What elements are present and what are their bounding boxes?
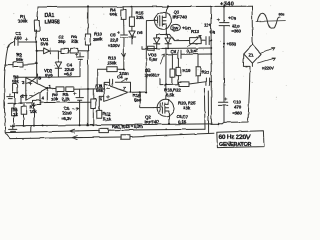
capacitor C8 <box>201 37 211 45</box>
svg-text:R21: R21 <box>202 69 210 74</box>
title box <box>217 131 264 148</box>
resistor R7 <box>21 103 26 126</box>
svg-text:60s: 60s <box>279 13 285 17</box>
label C5 22,0 100v <box>108 32 120 48</box>
wire op-amp1 minus input <box>21 96 26 104</box>
label pin3 <box>22 80 25 85</box>
svg-text:IRF740: IRF740 <box>173 15 188 20</box>
label pin5 <box>100 97 103 102</box>
wire vertical rail x224 <box>223 6 225 22</box>
svg-text:3: 3 <box>22 80 25 85</box>
svg-text:≈6,3v: ≈6,3v <box>61 116 72 121</box>
node rail junction x123 <box>122 6 124 8</box>
svg-text:6,5k: 6,5k <box>166 92 175 97</box>
label DA1 LM358 <box>45 13 60 26</box>
svg-text:11+: 11+ <box>204 23 211 28</box>
label R1 100k <box>18 14 28 24</box>
wire bottom bus A <box>10 124 222 126</box>
arrow bus C <box>72 136 82 140</box>
svg-text:56k: 56k <box>16 57 24 62</box>
label R2 56k <box>16 53 24 63</box>
resistor R17 <box>170 54 175 84</box>
capacitor C5b plates <box>117 32 127 52</box>
resistor R9 box <box>68 48 88 53</box>
node output junction <box>46 87 48 89</box>
label GENERATOR <box>219 142 251 148</box>
resistor R2 <box>5 62 37 67</box>
wire diamond loop <box>224 54 252 122</box>
svg-text:2,2k: 2,2k <box>62 96 71 101</box>
label C6 <box>171 49 177 54</box>
svg-text:300k: 300k <box>94 36 104 41</box>
label pin1 <box>49 84 52 89</box>
resistor feedback <box>33 100 91 105</box>
resistor R10 <box>85 34 90 45</box>
svg-text:R19: R19 <box>183 68 191 73</box>
wire top supply rail <box>38 5 252 8</box>
svg-text:10k: 10k <box>51 96 59 101</box>
wire divider x34 <box>31 103 34 132</box>
wire op-amp plus input feed <box>37 70 80 77</box>
svg-text:DA1: DA1 <box>45 13 55 19</box>
label R20 R25 13k <box>178 101 196 111</box>
svg-text:100k: 100k <box>18 19 28 24</box>
capacitor C5 electrolytic <box>74 89 84 125</box>
svg-text:Z1: Z1 <box>249 53 255 58</box>
trimmer R13b <box>188 36 201 47</box>
label +GD <box>182 25 192 30</box>
label D2 1N5817 <box>145 67 161 77</box>
svg-text:+550: +550 <box>227 41 237 46</box>
label Q2 IRF740 <box>145 114 160 124</box>
node junction Q2 drain/W2 <box>165 83 167 85</box>
label C6 C7 0,15 <box>176 115 189 125</box>
wire bus B <box>6 130 99 132</box>
svg-text:D6: D6 <box>137 30 143 35</box>
ground main <box>9 125 17 132</box>
label 60 Hz 220V <box>219 134 251 141</box>
wire feedback bottom <box>8 102 33 105</box>
node A junction C1/R1 <box>35 41 37 43</box>
label +550 <box>227 41 237 46</box>
label pin8 + stub <box>37 74 39 83</box>
label R13b <box>191 29 199 34</box>
wire lower bus W2 <box>160 78 179 84</box>
label VD3 5,6v <box>148 52 158 62</box>
resistor R3 <box>13 77 18 104</box>
wire Q1 gate down <box>146 20 154 92</box>
wire source bus <box>157 33 170 35</box>
svg-text:5: 5 <box>100 97 103 102</box>
label C1 150 <box>15 31 23 40</box>
svg-text:≈360: ≈360 <box>232 29 242 34</box>
arrow bus B <box>69 129 79 133</box>
svg-text:LM358: LM358 <box>45 19 60 25</box>
wire rail down to R10 <box>87 7 89 35</box>
wire rail to R15 <box>131 7 133 17</box>
sine sketch axis <box>256 20 285 23</box>
label 0,1uF <box>187 49 198 54</box>
resistor R20 <box>179 82 206 87</box>
svg-text:7: 7 <box>123 86 126 91</box>
resistor R19 <box>176 58 181 83</box>
label +C9 <box>228 16 237 21</box>
node junctions bus <box>156 48 169 50</box>
capacitor C6 <box>166 50 211 58</box>
svg-text:≈220v: ≈220v <box>262 66 274 71</box>
wire bus C <box>10 137 121 139</box>
wire Q2 drain vertical <box>165 48 167 99</box>
svg-text:0,1uF: 0,1uF <box>187 49 198 54</box>
label R7 10k <box>30 105 38 115</box>
label pin4 + stub <box>39 92 41 100</box>
label VD2 5V6 <box>44 68 53 77</box>
resistor R6 <box>12 103 17 126</box>
svg-text:100n: 100n <box>119 71 129 76</box>
label VD1 5V6 <box>40 37 49 46</box>
label R21 <box>202 69 210 74</box>
svg-text:4: 4 <box>42 96 45 101</box>
resistor R12 <box>97 96 102 118</box>
label Z1 <box>249 53 255 58</box>
sine sketch wave <box>257 14 280 29</box>
op-amp U1 DA1.1 <box>26 78 47 101</box>
wire rail corner to diamond <box>251 6 254 44</box>
wire bus B corner up <box>203 88 206 129</box>
resistor R1 <box>34 20 39 31</box>
label Rw1 R43 6,0m <box>112 124 143 129</box>
wire op-amp2 output <box>128 91 146 93</box>
op-amp U2 DA1.2 <box>104 84 128 101</box>
node fb junctions <box>14 102 22 104</box>
svg-text:C6: C6 <box>171 49 177 54</box>
capacitor C3 <box>75 53 83 70</box>
diode D4 right <box>165 35 171 49</box>
resistor R13 <box>97 67 124 72</box>
wire R1 to node A <box>35 30 37 42</box>
label R3 56k <box>12 75 20 84</box>
label pin7 <box>123 86 126 91</box>
svg-text:56k: 56k <box>12 79 20 84</box>
node rail junction x132 <box>131 6 133 8</box>
wire R3 to plus rail <box>15 76 37 78</box>
wire R13 left down <box>96 69 98 88</box>
wire node R2 vertical <box>26 77 36 83</box>
transistor Q2 IRF740 <box>153 99 174 116</box>
svg-text:13k: 13k <box>183 106 191 111</box>
svg-text:1k: 1k <box>13 112 18 117</box>
svg-text:8: 8 <box>39 76 42 81</box>
svg-text:IRF740: IRF740 <box>145 119 160 124</box>
svg-text:5V6: 5V6 <box>41 41 49 46</box>
wire trimmer branch <box>170 34 190 40</box>
wire diode bottom bus <box>142 47 211 49</box>
wire bus C corner up <box>207 91 209 133</box>
label D6 <box>137 30 143 35</box>
wire R12 to op-amp2 plus <box>99 95 104 97</box>
node junctions on x211 <box>210 40 212 83</box>
label pin2 <box>22 94 25 99</box>
node junction gate wire <box>145 91 147 93</box>
wire zener arrow <box>160 54 164 64</box>
wire polarity arrow C5 <box>73 107 79 110</box>
label C2 36p <box>58 35 66 44</box>
svg-text:33k: 33k <box>136 15 144 20</box>
label R10 300k <box>94 32 104 42</box>
svg-text:470: 470 <box>234 105 242 110</box>
node rail junction x211 <box>210 6 212 8</box>
wire VD1 down to op-amp input <box>36 51 38 78</box>
node junction R10/output wire <box>87 88 89 90</box>
svg-text:+340: +340 <box>220 2 234 8</box>
svg-text:≈6,3: ≈6,3 <box>64 72 73 77</box>
label 11+ <box>204 23 211 28</box>
label C10 470 360 <box>233 99 243 115</box>
wire Q1 source down <box>165 29 167 35</box>
resistor R4 <box>121 10 126 19</box>
label R11 56k <box>95 84 104 94</box>
label C5 22u0 6,3v <box>61 106 72 121</box>
node junction output/C4 <box>130 91 142 93</box>
wire rail corner down to R1 <box>36 7 39 20</box>
label 220v <box>262 66 274 71</box>
svg-text:R13: R13 <box>191 29 199 34</box>
resistor R11 <box>91 89 96 125</box>
wire op-amp1 output <box>47 87 56 90</box>
svg-text:≈100v: ≈100v <box>108 43 120 48</box>
diode D6 <box>129 26 135 44</box>
svg-text:150k: 150k <box>107 60 117 65</box>
wire vertical rail x211 <box>210 6 212 124</box>
label +340 <box>220 2 234 8</box>
node junction source <box>165 34 167 36</box>
rectifier Z1 diamond <box>244 44 261 63</box>
svg-text:22k: 22k <box>71 39 79 44</box>
label R15 33k <box>136 11 144 21</box>
diode VD2 <box>55 51 61 77</box>
svg-text:GENERATOR: GENERATOR <box>219 142 251 148</box>
wire R4 down <box>123 19 125 34</box>
label 42,0 360 <box>232 23 242 33</box>
svg-text:36p: 36p <box>58 39 66 44</box>
wire rail to R4 <box>122 7 124 10</box>
svg-text:22,0: 22,0 <box>110 37 119 42</box>
label R6 1k <box>13 108 19 118</box>
label R8 10k <box>51 92 59 101</box>
node junction divider <box>58 50 89 52</box>
label R9 22k <box>71 35 79 44</box>
wire output to feedback <box>46 88 48 103</box>
svg-text:60 Hz 220V: 60 Hz 220V <box>219 134 251 141</box>
svg-text:10k: 10k <box>30 109 38 114</box>
label R13 150k <box>107 56 117 66</box>
label C8 <box>210 30 216 35</box>
resistor R5 <box>66 87 104 92</box>
wire R10 down <box>87 45 89 125</box>
label C3 <box>64 62 75 76</box>
node junction R2/wire <box>36 50 38 65</box>
label R18 R22 6,5k <box>164 87 181 97</box>
wire annotation arrow C4 <box>122 78 128 81</box>
capacitor C10 <box>218 98 227 124</box>
wire Q2 gate branch <box>140 92 153 107</box>
component box on bus <box>148 46 155 50</box>
node junction R13 net <box>123 68 125 70</box>
node rail junction x88 <box>87 5 89 7</box>
node rail junction x163 <box>166 5 168 7</box>
wire border left <box>4 47 10 139</box>
capacitor C4 <box>104 79 130 92</box>
label R5 2,2k <box>62 92 71 101</box>
resistor R8 <box>56 87 64 92</box>
label pin6 <box>100 84 103 89</box>
capacitor C9 <box>217 19 229 102</box>
capacitor C2 box <box>61 48 68 53</box>
label C4 100n <box>117 71 129 79</box>
label ms <box>279 13 285 17</box>
wire divider top <box>56 50 61 52</box>
wire arrow output top <box>261 48 274 53</box>
node junction x224 550 <box>223 43 225 45</box>
svg-text:1N5817: 1N5817 <box>145 72 161 77</box>
label circled 1w <box>171 24 180 30</box>
zener diode VD1 <box>36 42 56 54</box>
label R12 5,1k <box>103 112 112 122</box>
wire arrow down C5b <box>122 52 126 69</box>
wire Q2 source down <box>168 116 170 124</box>
svg-text:5,6v: 5,6v <box>149 57 158 62</box>
label R4 56k <box>110 8 118 18</box>
capacitor C7 <box>206 78 211 85</box>
resistor on bus B <box>99 128 205 132</box>
diode D3 left <box>154 35 160 49</box>
svg-text:+C9: +C9 <box>228 16 237 21</box>
wire arrow output bottom <box>258 58 276 63</box>
label Q1 IRF740 <box>173 9 188 19</box>
label R19 <box>183 68 191 73</box>
node junctions bus A <box>13 123 219 127</box>
svg-text:≈360: ≈360 <box>233 110 243 115</box>
svg-text:Rw1, R43 = 6,0m: Rw1, R43 = 6,0m <box>112 124 143 129</box>
capacitor C1 <box>8 38 36 47</box>
resistor on bus C <box>121 133 214 139</box>
resistor R15 <box>129 17 134 26</box>
ground small left <box>7 94 14 99</box>
label R16 560 <box>133 93 142 103</box>
svg-text:C8: C8 <box>210 30 216 35</box>
svg-text:56k: 56k <box>110 12 118 17</box>
node junction source wireA <box>168 123 170 125</box>
svg-text:1w: 1w <box>172 25 178 30</box>
node rail junction x224 <box>223 5 225 7</box>
transistor Q1 IRF740 <box>155 7 172 30</box>
resistor R21 <box>196 54 201 82</box>
